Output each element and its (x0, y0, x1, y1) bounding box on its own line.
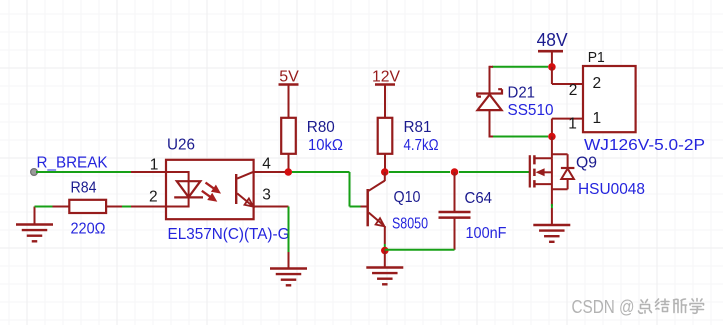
wire ground to R84 (35, 206, 53, 208)
junction node J1 (285, 168, 293, 176)
U26 LED cathode bar (174, 196, 203, 198)
ground G3 (366, 268, 403, 285)
svg-text:12V: 12V (372, 69, 400, 86)
value 4.7k&#937; (404, 137, 439, 154)
resistor R84 left lead (53, 206, 70, 208)
wire U26 pin3 down (288, 207, 290, 253)
pin number 3 (U26) (262, 186, 271, 203)
ground pin below U26 pin3 (288, 252, 290, 269)
svg-text:1: 1 (593, 110, 602, 127)
ground G2 (270, 269, 307, 286)
svg-text:R_BREAK: R_BREAK (37, 155, 109, 172)
wire down to Q10 base (349, 172, 351, 207)
P1 pin 1 stub (552, 118, 588, 120)
label S8050 (392, 216, 428, 233)
Q9 body diode cathode bar (561, 167, 575, 169)
label Q9 (576, 154, 597, 171)
pin number 1 (U26) (150, 157, 159, 174)
Q9 source vertical (551, 158, 553, 206)
svg-text:4.7kΩ: 4.7kΩ (404, 137, 439, 154)
junction node J2 (381, 168, 389, 176)
48V stem (551, 51, 553, 67)
label U26 (167, 137, 195, 154)
Q9 source wire tick (551, 204, 553, 208)
wire R84 to U26 pin 2 (122, 206, 131, 208)
svg-text:2: 2 (149, 189, 158, 206)
pin 2 stub of U26 (131, 206, 167, 208)
Q9 body stub with arrow (536, 168, 552, 176)
label 100nF (466, 225, 507, 242)
svg-text:5V: 5V (279, 68, 299, 85)
wire to Q10 base (350, 206, 361, 208)
diode D21 schottky cathode bar (477, 89, 502, 96)
svg-text:C64: C64 (465, 190, 493, 207)
svg-text:10kΩ: 10kΩ (308, 137, 343, 154)
P1 pin 2 stub (552, 83, 588, 85)
diode D21 triangle (478, 95, 502, 111)
port dot (unconnected pin) (31, 169, 38, 176)
Q9 source to ground (551, 208, 553, 225)
svg-text:220Ω: 220Ω (71, 220, 106, 237)
connector P1 box (583, 66, 636, 132)
pin number 2 (U26) (149, 189, 158, 206)
U26 phototransistor emitter (237, 193, 252, 206)
svg-text:EL357N(C)(TA)-G: EL357N(C)(TA)-G (168, 226, 290, 243)
wire J1 right (292, 171, 350, 173)
label R84 (71, 180, 97, 197)
P1 pin2 riser (551, 67, 553, 84)
label HSU0048 (578, 181, 645, 198)
Q9 body diode cathode lead (567, 154, 569, 168)
wire 48V to D21 cathode (492, 66, 548, 68)
D21 anode lead (489, 110, 491, 137)
power label 48V (537, 29, 569, 50)
resistor R84 right lead (106, 206, 122, 208)
Q9 body diode triangle (561, 169, 574, 179)
wire R_BREAK to U26 pin 1 (36, 171, 131, 173)
resistor R81 (378, 85, 393, 173)
ground pin below Q10 (384, 251, 386, 268)
wire C64 to J4 (385, 249, 455, 251)
Q10 base bar (366, 189, 369, 226)
48V power bar (538, 50, 563, 53)
svg-text:R84: R84 (71, 180, 97, 197)
Q9 gate bar (529, 155, 531, 187)
junction node J6 (548, 133, 556, 141)
D21 cathode corner (490, 66, 494, 68)
label WJ126V-5.0-2P (584, 137, 705, 154)
optocoupler U26 box (166, 160, 254, 219)
ground G4 (533, 225, 570, 242)
Q9 source stub (534, 183, 552, 185)
C64 bottom lead (454, 218, 456, 250)
wire J3 to Q9 gate (459, 171, 530, 173)
P1 pin name 1 (593, 110, 602, 127)
power label 12V (372, 69, 400, 86)
Q10 emitter arrow (376, 218, 385, 226)
svg-text:1: 1 (568, 115, 577, 132)
svg-text:CSDN @: CSDN @ (572, 297, 635, 317)
pin number 1 (P1) (568, 115, 577, 132)
svg-text:4: 4 (262, 156, 271, 173)
Q10 base stub (361, 206, 367, 208)
value 10k&#937; (308, 137, 343, 154)
wire J2 to J3 (389, 171, 450, 173)
label C64 (465, 190, 493, 207)
resistor R80 (281, 85, 296, 173)
U26 LED anode jog (pin1) (166, 171, 189, 173)
junction node J3 (451, 168, 459, 176)
power label 5V (279, 68, 299, 85)
P1 pin1 riser (551, 119, 553, 137)
U26 LED triangle (177, 181, 201, 197)
svg-text:U26: U26 (167, 137, 195, 154)
U26 LED vertical conductor (188, 171, 190, 208)
junction node J5 (548, 63, 556, 71)
Q10 collector diagonal (369, 181, 385, 191)
label R81 (404, 119, 432, 136)
Q9 drain stub (534, 157, 552, 159)
value 220&#937; (71, 220, 106, 237)
svg-text:P1: P1 (588, 49, 605, 66)
svg-text:48V: 48V (537, 29, 569, 50)
label D21 (508, 84, 536, 101)
U26 light arrow 2 (202, 191, 218, 202)
label EL357N(C)(TA)-G (168, 226, 290, 243)
pin number 2 (P1) (569, 82, 578, 99)
C64 top plate (439, 211, 471, 214)
U26 phototransistor collector (237, 172, 253, 179)
Q9 body diode anode lead (567, 179, 569, 189)
pin number 4 (U26) (262, 156, 271, 173)
Q9 body diode bottom wire (552, 188, 568, 190)
resistor R84 body (69, 200, 106, 213)
svg-text:Q10: Q10 (394, 189, 421, 206)
svg-text:1: 1 (150, 157, 159, 174)
svg-text:WJ126V-5.0-2P: WJ126V-5.0-2P (584, 137, 705, 154)
junction node J4 (381, 247, 389, 255)
P1 pin name 2 (593, 75, 602, 92)
label SS510 (508, 102, 554, 119)
Q10 collector vertical (384, 172, 386, 181)
pin 3 stub of U26 (254, 206, 289, 208)
ground pin under R84 left (34, 207, 36, 225)
svg-text:Q9: Q9 (576, 154, 597, 171)
Q9 body diode top wire (552, 153, 568, 155)
C64 top lead (454, 172, 456, 212)
Q9 channel bar segments (533, 155, 536, 187)
pin 4 stub of U26 (254, 171, 289, 173)
svg-text:R80: R80 (307, 119, 335, 136)
svg-text:D21: D21 (508, 84, 536, 101)
wire D21 anode to J6 (493, 136, 548, 138)
svg-text:SS510: SS510 (508, 102, 554, 119)
svg-text:100nF: 100nF (466, 225, 507, 242)
5V power bar (279, 83, 299, 86)
pin 1 stub of U26 (131, 171, 167, 173)
U26 phototransistor base bar (235, 174, 237, 204)
D21 cathode lead (489, 66, 491, 94)
svg-text:3: 3 (262, 186, 271, 203)
U26 light arrow 1 (206, 183, 222, 194)
net label R_BREAK (37, 155, 109, 172)
Q10 emitter diagonal (369, 213, 384, 226)
U26 phototransistor emitter arrow (245, 199, 254, 207)
Q10 emitter vertical (384, 226, 386, 244)
watermark CSDN @总结所学 (572, 297, 704, 317)
label R80 (307, 119, 335, 136)
label P1 (588, 49, 605, 66)
label Q10 (394, 189, 421, 206)
svg-text:2: 2 (593, 75, 602, 92)
U26 LED cathode jog (pin2) (166, 206, 189, 208)
svg-text:2: 2 (569, 82, 578, 99)
wire emitter to J4 (384, 244, 386, 251)
svg-text:S8050: S8050 (392, 216, 428, 233)
Q9 drain vertical (551, 137, 553, 159)
D21 anode corner (490, 136, 494, 138)
svg-text:HSU0048: HSU0048 (578, 181, 645, 198)
C64 bottom plate (439, 216, 471, 219)
svg-text:R81: R81 (404, 119, 432, 136)
ground G1 (16, 225, 53, 242)
12V power bar (375, 83, 395, 86)
